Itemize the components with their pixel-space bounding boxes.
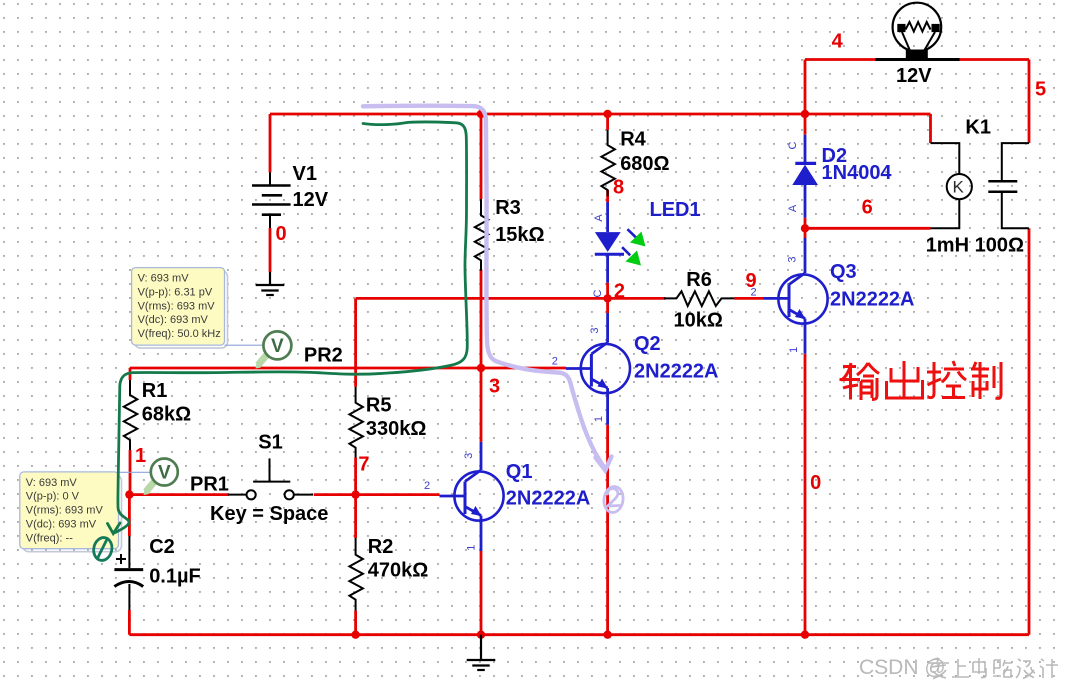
svg-text:C2: C2 bbox=[149, 536, 175, 558]
svg-text:330kΩ: 330kΩ bbox=[366, 418, 427, 440]
svg-text:12V: 12V bbox=[896, 65, 932, 87]
svg-text:Key = Space: Key = Space bbox=[210, 503, 328, 525]
svg-text:2N2222A: 2N2222A bbox=[506, 488, 591, 510]
svg-text:2: 2 bbox=[751, 286, 757, 298]
svg-text:V: 693 mV: V: 693 mV bbox=[26, 477, 78, 489]
svg-text:PR2: PR2 bbox=[304, 345, 343, 367]
svg-text:Q2: Q2 bbox=[634, 333, 661, 355]
svg-text:R4: R4 bbox=[620, 128, 646, 150]
svg-text:0: 0 bbox=[276, 223, 287, 245]
svg-text:1N4004: 1N4004 bbox=[822, 162, 893, 184]
svg-text:1: 1 bbox=[135, 445, 146, 467]
svg-text:PR1: PR1 bbox=[190, 473, 229, 495]
svg-text:15kΩ: 15kΩ bbox=[495, 224, 544, 246]
svg-text:2: 2 bbox=[552, 356, 558, 368]
svg-text:K: K bbox=[953, 178, 965, 197]
svg-text:10kΩ: 10kΩ bbox=[674, 310, 723, 332]
svg-text:V(dc): 693 mV: V(dc): 693 mV bbox=[26, 519, 97, 531]
svg-text:2: 2 bbox=[614, 281, 625, 303]
svg-text:6: 6 bbox=[862, 197, 873, 219]
svg-text:4: 4 bbox=[832, 31, 844, 53]
svg-text:2: 2 bbox=[424, 480, 430, 492]
svg-text:K1: K1 bbox=[965, 117, 991, 139]
svg-text:R5: R5 bbox=[366, 394, 392, 416]
svg-text:R1: R1 bbox=[142, 380, 168, 402]
svg-text:V(freq): --: V(freq): -- bbox=[26, 532, 73, 544]
svg-text:A: A bbox=[787, 204, 799, 212]
svg-text:68kΩ: 68kΩ bbox=[142, 404, 191, 426]
svg-text:V(rms): 693 mV: V(rms): 693 mV bbox=[138, 300, 216, 312]
svg-text:V: V bbox=[271, 336, 284, 357]
svg-text:680Ω: 680Ω bbox=[620, 153, 669, 175]
svg-text:8: 8 bbox=[613, 176, 624, 198]
svg-text:LED1: LED1 bbox=[650, 199, 701, 221]
svg-text:V(rms): 693 mV: V(rms): 693 mV bbox=[26, 505, 104, 517]
svg-text:1: 1 bbox=[465, 545, 477, 551]
svg-text:R3: R3 bbox=[495, 197, 521, 219]
svg-text:V(p-p): 0 V: V(p-p): 0 V bbox=[26, 491, 80, 503]
svg-text:R6: R6 bbox=[686, 269, 712, 291]
svg-text:1: 1 bbox=[788, 347, 800, 353]
svg-text:1: 1 bbox=[593, 416, 605, 422]
svg-text:2N2222A: 2N2222A bbox=[634, 361, 719, 383]
svg-text:7: 7 bbox=[358, 454, 369, 476]
svg-text:V(p-p): 6.31 pV: V(p-p): 6.31 pV bbox=[138, 286, 213, 298]
svg-text:3: 3 bbox=[589, 328, 601, 334]
svg-text:3: 3 bbox=[786, 257, 798, 263]
svg-text:0.1µF: 0.1µF bbox=[149, 565, 201, 587]
svg-text:R2: R2 bbox=[368, 536, 394, 558]
svg-text:V(dc): 693 mV: V(dc): 693 mV bbox=[138, 314, 209, 326]
svg-text:1mH 100Ω: 1mH 100Ω bbox=[926, 235, 1024, 257]
svg-text:V: V bbox=[158, 463, 171, 484]
svg-text:A: A bbox=[593, 214, 605, 222]
svg-text:12V: 12V bbox=[293, 189, 329, 211]
svg-text:C: C bbox=[787, 141, 799, 149]
svg-text:0: 0 bbox=[810, 472, 821, 494]
svg-text:V1: V1 bbox=[293, 163, 317, 185]
svg-text:Q3: Q3 bbox=[830, 261, 857, 283]
svg-text:S1: S1 bbox=[258, 432, 282, 454]
svg-text:V: 693 mV: V: 693 mV bbox=[138, 273, 190, 285]
svg-text:V(freq): 50.0 kHz: V(freq): 50.0 kHz bbox=[138, 328, 221, 340]
svg-text:3: 3 bbox=[463, 453, 475, 459]
svg-text:5: 5 bbox=[1035, 79, 1046, 101]
svg-text:3: 3 bbox=[489, 376, 500, 398]
svg-text:C: C bbox=[592, 289, 604, 297]
svg-text:470kΩ: 470kΩ bbox=[368, 560, 429, 582]
svg-text:Q1: Q1 bbox=[506, 461, 533, 483]
svg-text:2N2222A: 2N2222A bbox=[830, 288, 915, 310]
